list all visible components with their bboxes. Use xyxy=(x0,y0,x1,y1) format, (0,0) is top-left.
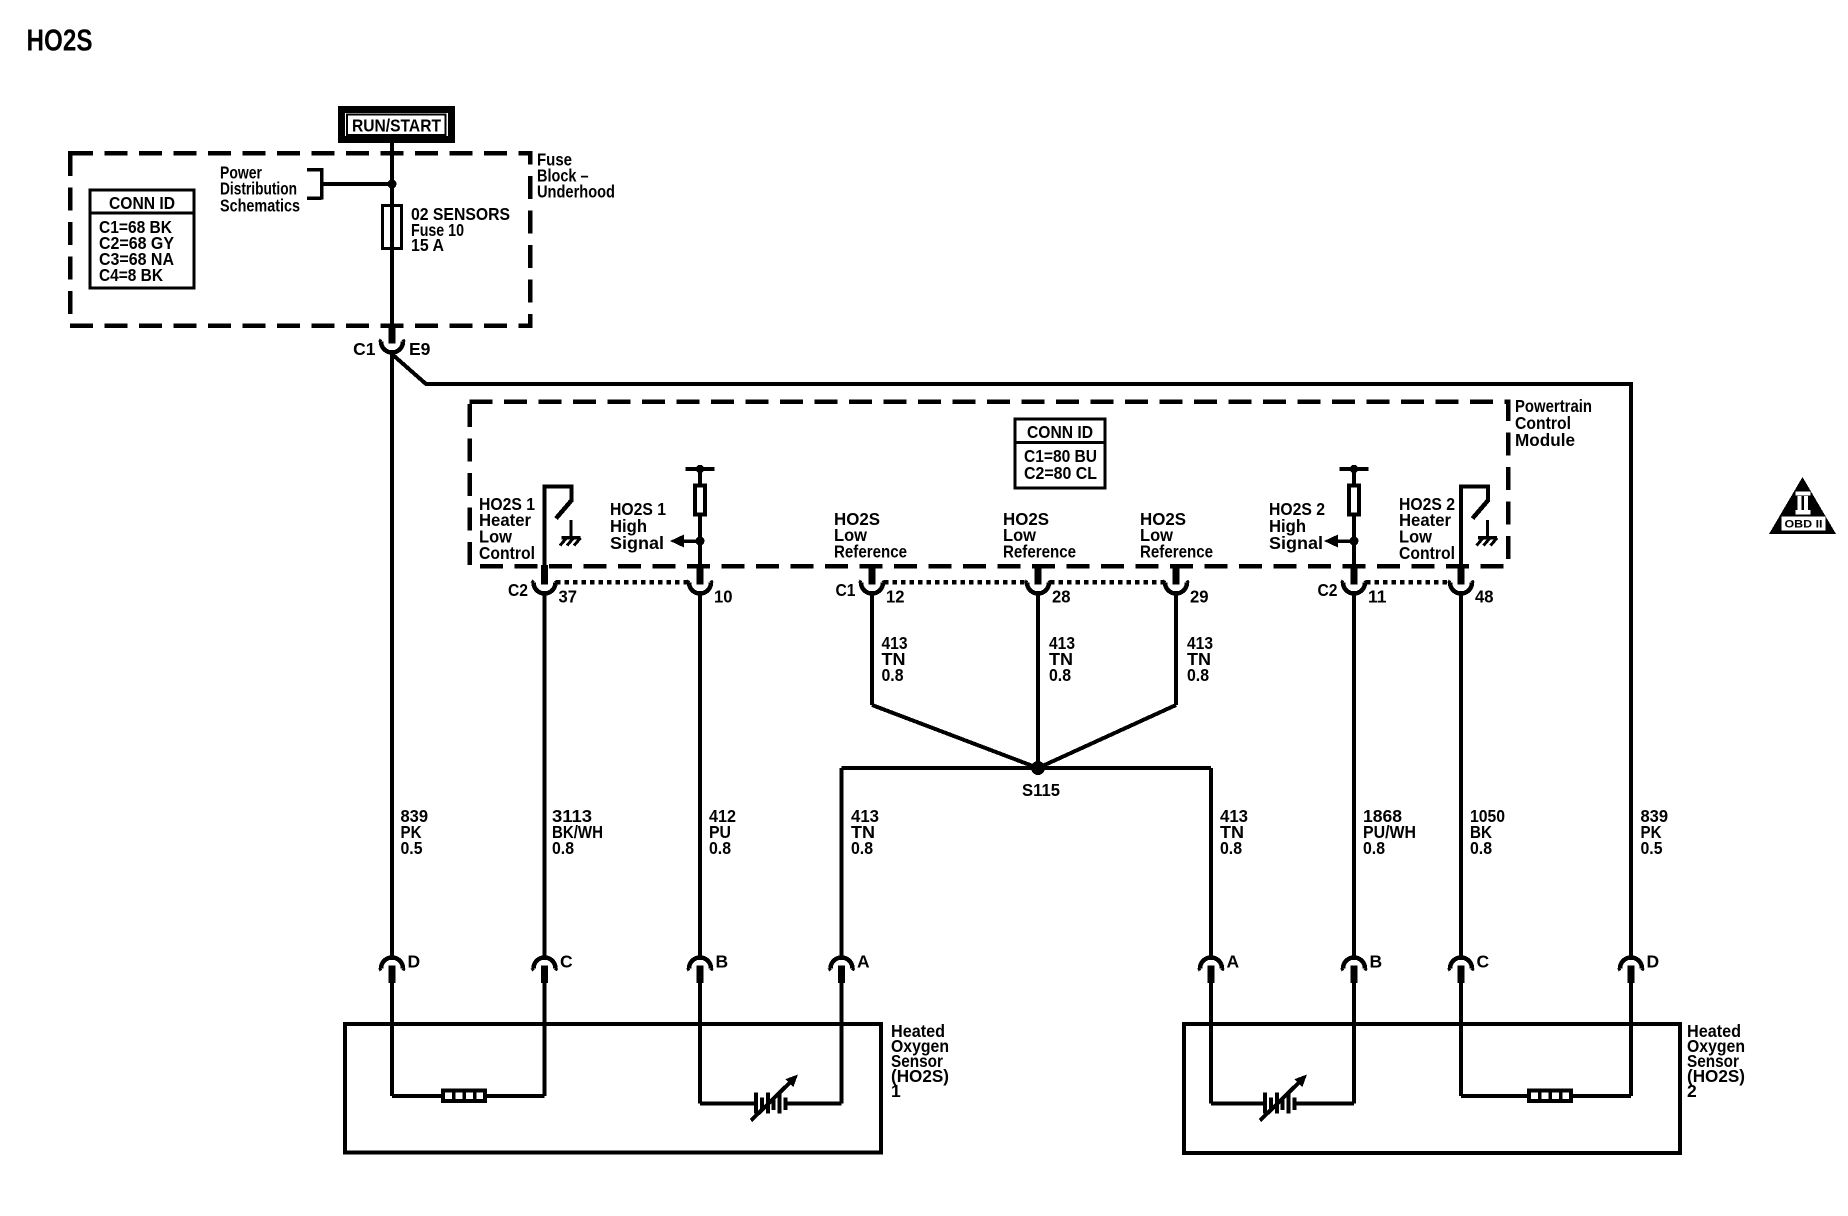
svg-text:OBD II: OBD II xyxy=(1785,519,1823,531)
svg-text:C1: C1 xyxy=(836,580,856,600)
svg-text:Schematics: Schematics xyxy=(220,196,300,216)
svg-text:0.8: 0.8 xyxy=(882,665,904,685)
svg-text:29: 29 xyxy=(1190,587,1209,607)
svg-text:Reference: Reference xyxy=(1003,542,1076,562)
svg-text:C2=80 CL: C2=80 CL xyxy=(1024,463,1097,483)
svg-text:A: A xyxy=(857,952,870,972)
svg-text:Signal: Signal xyxy=(1269,533,1323,553)
svg-text:B: B xyxy=(716,952,729,972)
svg-text:28: 28 xyxy=(1052,587,1071,607)
svg-text:Control: Control xyxy=(479,543,535,563)
svg-text:Signal: Signal xyxy=(610,533,664,553)
svg-text:0.5: 0.5 xyxy=(1641,838,1663,858)
svg-text:37: 37 xyxy=(559,587,578,607)
svg-text:0.5: 0.5 xyxy=(401,838,423,858)
svg-text:0.8: 0.8 xyxy=(1187,665,1209,685)
svg-text:Reference: Reference xyxy=(1140,542,1213,562)
svg-text:48: 48 xyxy=(1475,587,1494,607)
svg-text:C: C xyxy=(1477,952,1490,972)
svg-text:0.8: 0.8 xyxy=(1220,838,1242,858)
svg-text:0.8: 0.8 xyxy=(709,838,731,858)
svg-text:E9: E9 xyxy=(409,339,431,359)
svg-text:0.8: 0.8 xyxy=(851,838,873,858)
svg-text:Module: Module xyxy=(1515,430,1575,450)
svg-text:CONN ID: CONN ID xyxy=(109,193,175,213)
svg-text:A: A xyxy=(1227,952,1240,972)
svg-text:C2: C2 xyxy=(1318,580,1338,600)
svg-text:RUN/START: RUN/START xyxy=(352,116,441,136)
svg-text:D: D xyxy=(1647,952,1660,972)
svg-text:10: 10 xyxy=(714,587,733,607)
svg-text:Reference: Reference xyxy=(834,542,907,562)
svg-text:C: C xyxy=(560,952,573,972)
svg-text:S115: S115 xyxy=(1022,780,1060,800)
svg-text:2: 2 xyxy=(1687,1081,1697,1101)
svg-text:C2: C2 xyxy=(508,580,528,600)
svg-text:Underhood: Underhood xyxy=(537,182,615,202)
svg-text:CONN ID: CONN ID xyxy=(1027,422,1093,442)
svg-text:11: 11 xyxy=(1368,587,1387,607)
svg-text:0.8: 0.8 xyxy=(1470,838,1492,858)
svg-text:Control: Control xyxy=(1399,543,1455,563)
svg-text:0.8: 0.8 xyxy=(1049,665,1071,685)
svg-text:C1: C1 xyxy=(353,339,376,359)
svg-text:0.8: 0.8 xyxy=(1363,838,1385,858)
svg-text:0.8: 0.8 xyxy=(552,838,574,858)
svg-text:B: B xyxy=(1370,952,1383,972)
svg-text:C4=8 BK: C4=8 BK xyxy=(99,265,163,285)
svg-text:15 A: 15 A xyxy=(411,235,444,255)
svg-text:12: 12 xyxy=(886,587,905,607)
svg-text:1: 1 xyxy=(891,1081,901,1101)
svg-text:HO2S: HO2S xyxy=(27,24,93,58)
svg-text:D: D xyxy=(408,952,421,972)
